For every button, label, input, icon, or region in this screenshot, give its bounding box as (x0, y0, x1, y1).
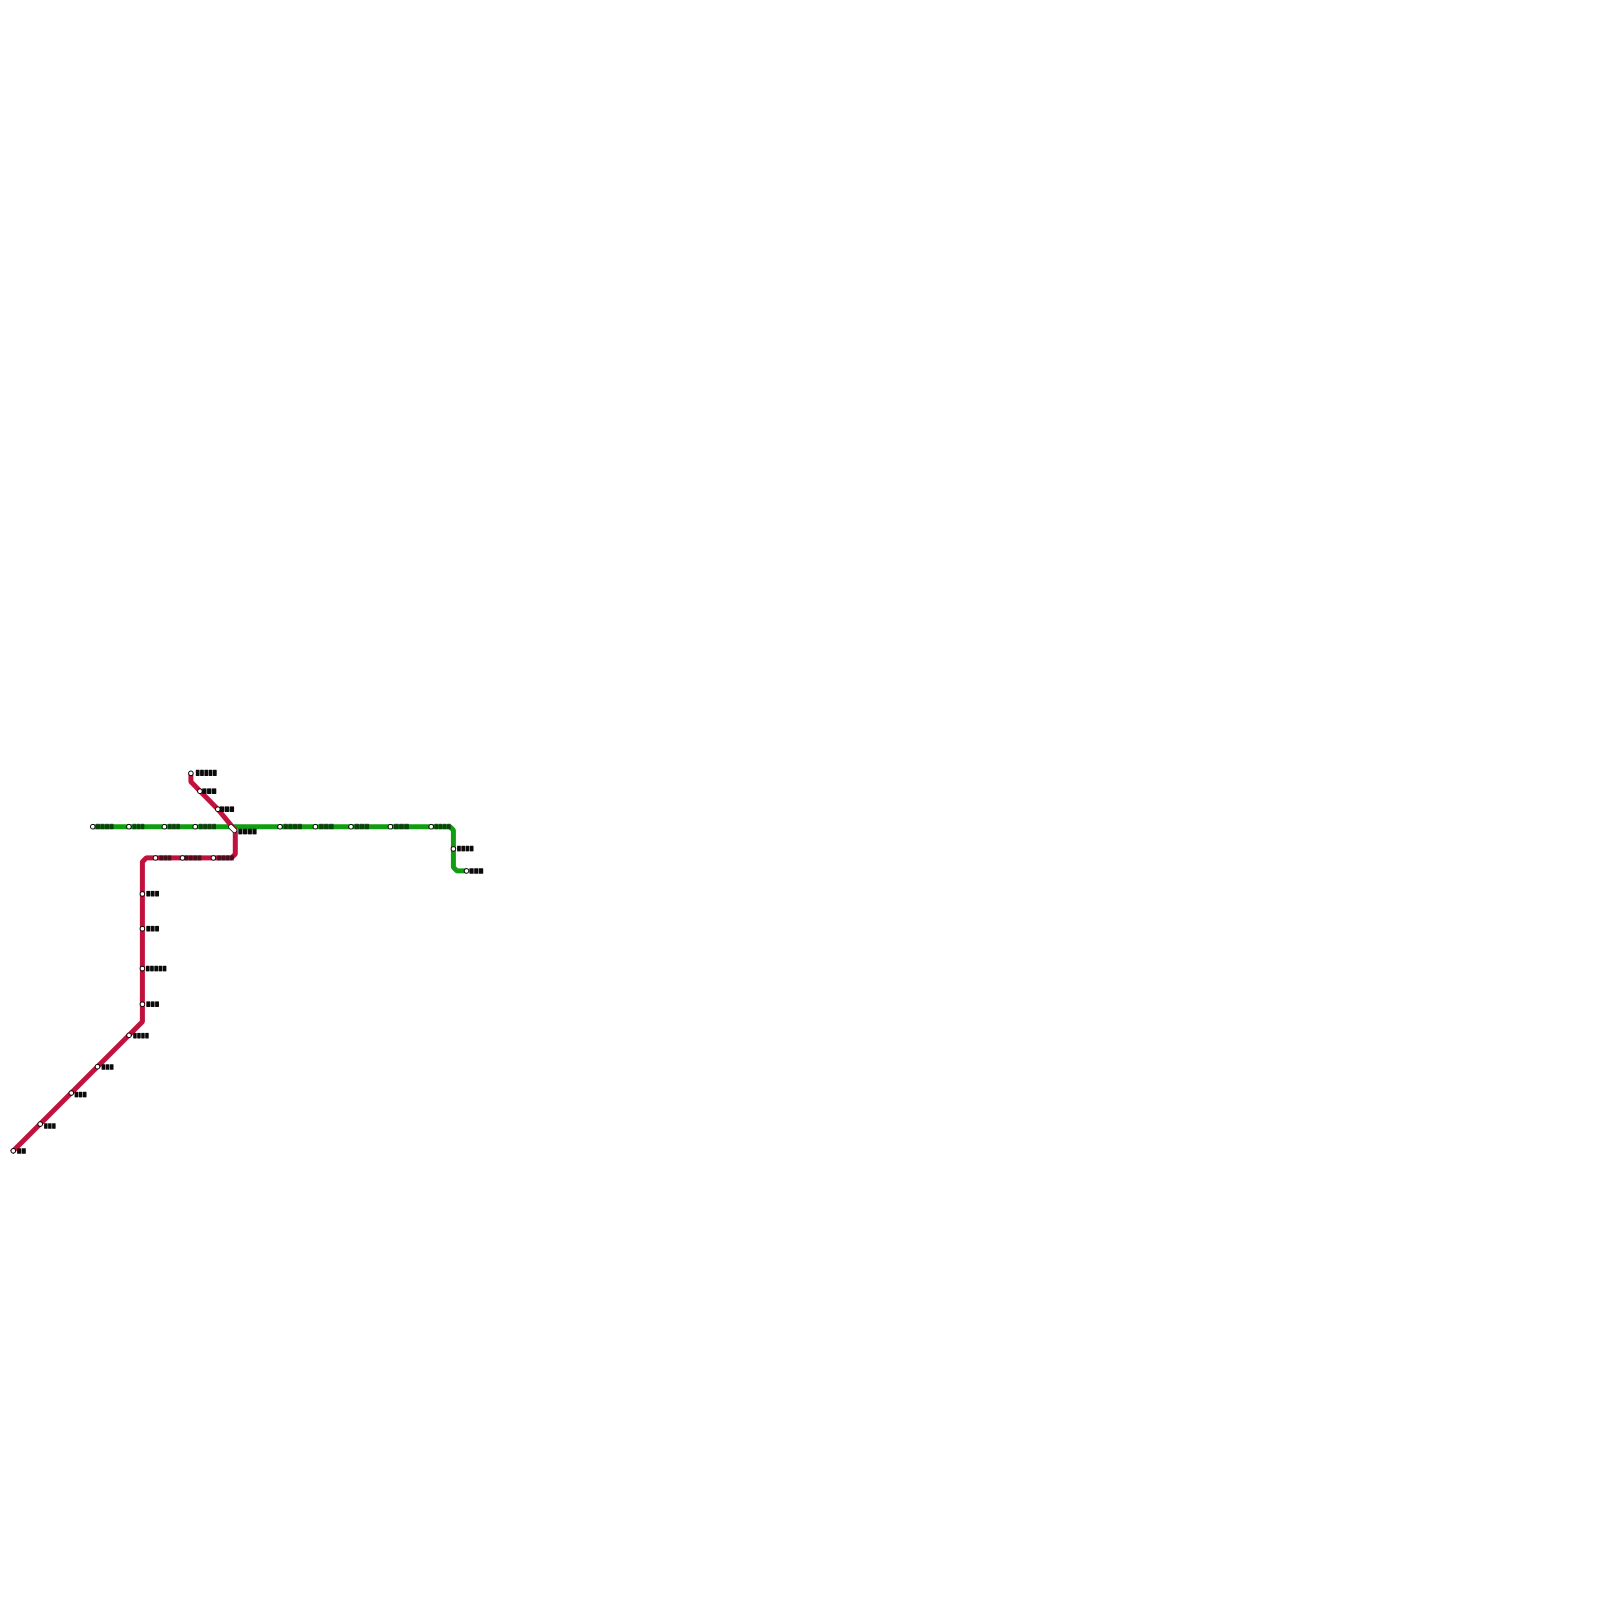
station Jiangsu Rd 江苏路 (127, 824, 132, 829)
station Jinjiang Park 锦江乐园 (95, 1064, 100, 1069)
station Lujiazui 陆家嘴 (313, 824, 318, 829)
label Huangpi Rd (217, 855, 234, 860)
label Xujiahui (146, 926, 159, 932)
label Zhangjiang (469, 868, 483, 874)
station Zhongshan Park 中山公园 (91, 824, 96, 829)
station Longyang Rd 龙阳路 (451, 847, 456, 852)
label Dongchang Rd (355, 824, 370, 829)
label Century Park (434, 824, 450, 829)
station Dongfang Rd 东方路 (388, 824, 393, 829)
station Hanzhong Rd 汉中路 (198, 789, 203, 794)
label Zhongshan Park (96, 824, 114, 829)
station Lianhua Rd 莲花路 (69, 1091, 74, 1096)
label Henan Rd (284, 824, 302, 829)
label Jinjiang Park (102, 1064, 114, 1070)
label Jiangsu Rd (133, 824, 145, 829)
label Changshu Rd (159, 855, 171, 860)
label Dongfang Rd (394, 824, 409, 829)
station Huangpi Rd 黄陂南路 (211, 856, 216, 861)
station Zhangjiang 张江高科 (464, 869, 469, 874)
interchange People's Square 人民广场 (228, 824, 238, 834)
label Caobao Rd (146, 1001, 159, 1007)
station Xinzha Rd 新闸路 (216, 807, 221, 812)
label Lianhua Rd (75, 1092, 87, 1098)
label Shimen Rd (199, 824, 216, 829)
station Waihuan Rd 外环路 (38, 1122, 43, 1127)
station Century Park 世纪公园 (429, 824, 434, 829)
label Waihuan Rd (44, 1123, 56, 1129)
station Changshu Rd 常熟路 (153, 856, 158, 861)
label Hengshan Rd (146, 891, 159, 897)
station Shanghai Railway Stn 上海火车站 (189, 771, 194, 776)
label Jing'an Temple (168, 824, 180, 829)
station Shanghai Stadium 上海体育馆 (140, 966, 145, 971)
station Shimen Rd 石门一路 (193, 824, 198, 829)
station Xujiahui 徐家汇 (140, 926, 145, 931)
station South Railway Stn 上海南站 (127, 1033, 132, 1038)
station Henan Rd 河南中路 (278, 824, 283, 829)
label People's Square (238, 829, 256, 835)
station Jing'an Temple 静安寺 (162, 824, 167, 829)
label Shanghai Stadium (146, 966, 167, 972)
station Shaanxi Rd 陕西南路 (180, 856, 185, 861)
label Shanghai Railway Stn (196, 770, 217, 776)
label Shaanxi Rd (185, 855, 202, 860)
metro line 2 (green) (93, 827, 467, 871)
label Lujiazui (319, 824, 334, 829)
station Xinzhuang 莘庄 (11, 1149, 16, 1154)
metro line 1 (red) (12, 773, 236, 1152)
label South Railway Stn (133, 1033, 149, 1039)
label Hanzhong Rd (202, 788, 216, 794)
station Hengshan Rd 衡山路 (140, 892, 145, 897)
label Xinzhuang (17, 1148, 26, 1154)
station Dongchang Rd 东昌路 (349, 824, 354, 829)
label Longyang Rd (457, 846, 473, 852)
station Caobao Rd 漕宝路 (140, 1002, 145, 1007)
label Xinzha Rd (220, 806, 235, 812)
